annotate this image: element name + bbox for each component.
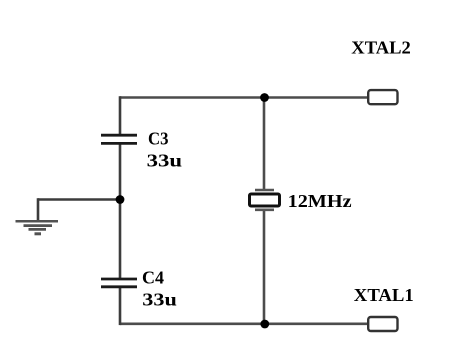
node: crystal top junction (260, 93, 269, 102)
ground (16, 221, 59, 234)
pin pad XTAL2 (368, 90, 397, 104)
wire: left rail top segment (top net to C3) (119, 96, 122, 135)
node: crystal bottom junction (260, 320, 269, 329)
wire: bottom net from left rail to XTAL1 pad (120, 322, 367, 325)
svg-text:33u: 33u (147, 151, 183, 171)
capacitor C4 (101, 279, 137, 287)
capacitor C3 (101, 135, 137, 143)
svg-text:XTAL1: XTAL1 (354, 285, 414, 305)
wire: ground stub horizontal (38, 198, 120, 201)
pin pad XTAL1 (368, 317, 397, 331)
wire: crystal branch lower (263, 210, 266, 324)
svg-text:C3: C3 (148, 129, 169, 149)
wire: left rail bottom segment (C4 to bottom net) (119, 287, 122, 325)
svg-text:C4: C4 (142, 268, 164, 288)
wire: crystal branch upper (263, 98, 266, 191)
crystal Y1 12MHz (250, 190, 280, 210)
svg-text:33u: 33u (142, 289, 177, 309)
wire: left rail middle segment (C3 to C4) (119, 143, 122, 279)
node: junction of ground with left rail (116, 195, 125, 204)
svg-text:12MHz: 12MHz (288, 191, 352, 211)
svg-text:XTAL2: XTAL2 (351, 38, 411, 58)
wire: ground stub vertical (37, 198, 40, 221)
wire: top net from left rail to XTAL2 pad (120, 96, 367, 99)
